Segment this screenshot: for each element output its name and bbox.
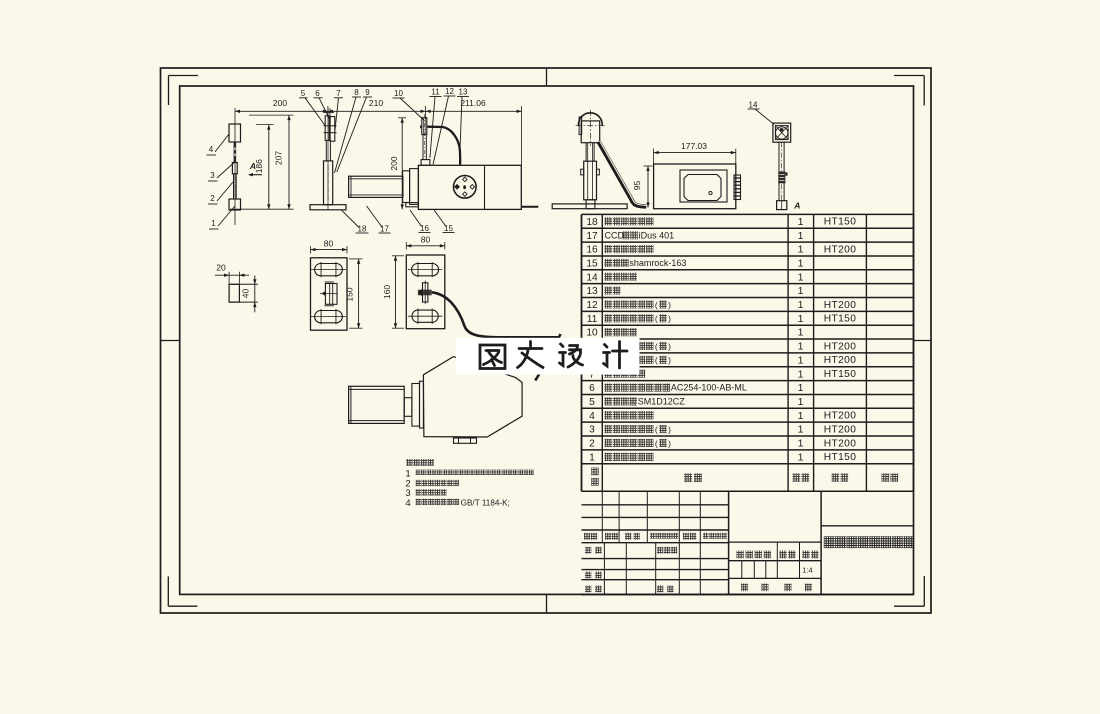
svg-text:8: 8 [354,88,359,97]
view2 column [324,161,333,205]
BOM rows content [586,216,856,463]
svg-text:12: 12 [586,300,598,311]
leader 2 [208,182,233,204]
dimension 150 left plate [344,259,362,328]
view2 base plate item18 [310,205,346,210]
svg-text:16: 16 [586,245,598,256]
svg-text:HT200: HT200 [824,355,857,366]
leader 15 to spectrograph [434,210,454,233]
svg-text:11: 11 [431,88,440,97]
leader 1 [209,206,235,229]
svg-text:HT150: HT150 [824,217,857,228]
svg-text:(: ( [655,300,658,310]
dimension 210 horizontal [328,98,426,119]
corner bracket top-left [169,76,199,106]
svg-text:95: 95 [632,181,642,191]
left mounting plate [311,258,348,330]
dimension 200 horizontal [235,98,328,113]
svg-text:1: 1 [798,451,804,463]
sideview clamp ears [581,169,600,175]
svg-text:HT150: HT150 [824,452,857,463]
view2 upper rod [326,140,330,161]
left plate bottom slot [311,309,346,324]
centering mark right [914,340,931,342]
leader 12 [433,87,456,165]
svg-text:3: 3 [589,425,595,436]
sideview foot block [586,200,595,209]
svg-text:20: 20 [216,263,226,273]
svg-text:): ) [668,438,671,448]
svg-text:13: 13 [459,88,468,97]
svg-text:1: 1 [798,244,804,256]
svg-text:): ) [668,300,671,310]
sideview head box [581,121,600,143]
box foot [406,203,419,207]
svg-text:1: 1 [798,396,804,408]
view1 lamp base block item1 [229,199,241,210]
dimension 80 left plate [311,239,348,254]
box side connector [734,175,741,200]
view2 lens clamp plates [324,108,337,141]
target stick base [777,201,787,210]
svg-text:10: 10 [394,89,403,98]
fiber cable on box [428,127,461,165]
svg-text:1: 1 [798,382,804,394]
svg-text:17: 17 [380,225,389,234]
svg-text:2: 2 [210,194,215,203]
leader 18 to base [342,210,369,233]
svg-text:(: ( [655,424,658,434]
svg-text:shamrock-163: shamrock-163 [629,258,686,268]
title block grid [582,491,914,594]
leader 16 to box foot [410,210,431,233]
centering mark top [546,68,548,86]
spectrograph box side view [654,164,736,209]
leader 3 [208,163,234,181]
BOM header row [591,468,898,486]
svg-text:HT200: HT200 [824,300,857,311]
svg-text:186: 186 [254,159,264,173]
camera lens tube [349,176,403,197]
sideview head left ear [579,117,582,135]
svg-text:(: ( [655,438,658,448]
view1 lamp assembly centerline [234,108,236,225]
leader 11 [430,88,442,159]
svg-text:18: 18 [586,217,598,228]
target stick clamp [778,172,787,184]
right plate top slot [408,262,443,277]
title block small labels [584,533,819,593]
svg-text:80: 80 [421,235,431,245]
svg-text:HT200: HT200 [824,438,857,449]
svg-text:(: ( [655,341,658,351]
svg-text:9: 9 [365,88,370,97]
dimension 211.06 horizontal [426,98,522,165]
centering mark bottom [546,595,548,614]
svg-text:1: 1 [798,438,804,450]
svg-text:1: 1 [211,219,216,228]
camera sketch feet [454,438,477,443]
centering mark left [161,340,180,342]
svg-text:7: 7 [336,89,341,98]
svg-text:177.03: 177.03 [681,141,707,151]
svg-text:): ) [668,424,671,434]
svg-text:2: 2 [589,439,595,450]
view1 lamp window block item4 [229,124,241,142]
sheet outer border [161,68,932,613]
svg-text:14: 14 [749,101,758,110]
watermark characters tu wen she ji [480,342,627,369]
svg-text:A: A [793,201,800,211]
left plate center clamp [320,282,338,306]
target panel squares [773,123,791,142]
svg-text:6: 6 [315,89,320,98]
svg-text:HT200: HT200 [824,341,857,352]
svg-text:1: 1 [798,285,804,297]
dimension 186 vertical [230,125,294,210]
view1 lamp lower rod item2 [234,174,237,199]
svg-text:4: 4 [589,411,595,422]
svg-text:1: 1 [798,230,804,242]
view1 lamp middle sleeve [232,163,237,174]
right mounting plate [406,255,445,329]
drawing title xiangdui biaoding shiyan buju [824,536,914,548]
view2 centerline [327,108,329,210]
svg-text:207: 207 [274,151,284,165]
dimension 177.03 [654,141,736,164]
svg-text:210: 210 [369,98,383,108]
dimension 200 view3 [389,118,406,210]
camera sketch cable arc [535,334,560,381]
svg-text:): ) [668,355,671,365]
sideview column [584,143,597,200]
sideview head dome [578,113,602,126]
svg-text:40: 40 [241,289,251,299]
svg-text:4: 4 [405,498,410,509]
svg-text:5: 5 [589,397,595,408]
camera sketch lens tube [349,386,405,423]
svg-text:HT200: HT200 [824,411,857,422]
svg-text:iDus 401: iDus 401 [639,230,675,240]
BOM parts list table [582,214,914,491]
camera sketch tube step [404,398,412,417]
svg-text:(: ( [655,314,658,324]
corner bracket bottom-right [894,576,924,606]
leader 8 [335,88,362,173]
svg-text:(: ( [655,355,658,365]
technical notes text [405,459,534,509]
svg-text:4: 4 [209,145,214,154]
svg-text:10: 10 [586,328,598,339]
corner bracket top-right [894,76,924,106]
svg-text:1: 1 [798,313,804,325]
svg-text:6: 6 [589,383,595,394]
leader 4 [207,134,230,155]
svg-text:HT150: HT150 [824,314,857,325]
left plate top slot [311,262,346,277]
fiber rod on box [420,114,430,165]
leader 10 [393,89,424,120]
svg-text:1: 1 [798,368,804,380]
svg-text:5: 5 [301,89,306,98]
target panel leader 14 [748,101,775,125]
svg-text:160: 160 [382,285,392,299]
view arrow A [248,161,262,176]
right plate fiber plug [418,281,432,305]
svg-text:): ) [668,341,671,351]
sheet inner border [180,86,914,594]
svg-text:200: 200 [273,98,287,108]
dimension 80 right plate [406,235,445,250]
svg-text:16: 16 [420,224,429,233]
sideview fiber cable thick [599,142,647,207]
spectrograph box front [418,165,521,209]
svg-text:HT200: HT200 [824,424,857,435]
camera sketch body polygon [423,357,522,437]
leader 7 [334,89,343,130]
svg-text:150: 150 [344,287,354,301]
dimension 207 vertical [249,115,294,209]
fiber cable from plug [432,292,560,337]
svg-text:1: 1 [798,327,804,339]
svg-text:): ) [668,314,671,324]
svg-text:CCD: CCD [605,230,625,240]
view1 lamp thin rod item3 [234,142,237,163]
svg-text:200: 200 [389,156,399,170]
leader 5 [299,89,326,126]
sideview base plate [552,204,627,209]
svg-text:13: 13 [586,286,598,297]
target stick [779,142,784,201]
svg-text:15: 15 [586,258,598,269]
svg-text:1:4: 1:4 [802,566,812,575]
svg-text:1: 1 [798,271,804,283]
svg-text:15: 15 [444,224,453,233]
svg-text:14: 14 [586,272,598,283]
svg-text:1: 1 [798,341,804,353]
svg-text:GB/T 1184-K;: GB/T 1184-K; [461,499,510,508]
corner bracket bottom-left [168,576,197,606]
svg-text:AC254-100-AB-ML: AC254-100-AB-ML [671,383,747,393]
svg-text:SM1D12CZ: SM1D12CZ [638,397,686,407]
box aperture circle [454,176,477,199]
svg-text:1: 1 [798,257,804,269]
svg-text:1: 1 [798,299,804,311]
leader 9 [337,88,372,172]
svg-text:17: 17 [586,231,598,242]
right plate bottom slot [408,309,443,324]
svg-text:11: 11 [587,314,598,325]
svg-text:12: 12 [445,87,454,96]
dimension 95 [632,166,653,208]
ground line right of box [521,206,538,208]
detail part 20x40 outline [229,272,258,302]
dimension 40 detail [241,276,257,313]
camera sketch flange plates [412,381,424,428]
watermark white box [456,338,640,375]
svg-text:1: 1 [589,452,595,463]
leader 17 to camera tube [367,206,391,234]
svg-text:1: 1 [798,216,804,228]
svg-text:1: 1 [798,410,804,422]
svg-text:80: 80 [324,239,334,249]
dimension 20 detail [215,263,249,277]
svg-text:1: 1 [798,424,804,436]
sideview head centerlines [576,110,606,146]
svg-text:18: 18 [358,225,367,234]
svg-text:1: 1 [798,354,804,366]
leader 13 [457,88,469,164]
leader 6 [314,89,331,120]
box left flange plates [403,169,419,205]
sideview upper rod [586,143,594,162]
dimension 160 right plate [382,256,404,328]
svg-text:HT150: HT150 [824,369,857,380]
svg-text:211.06: 211.06 [460,98,486,108]
svg-text:3: 3 [210,171,215,180]
svg-text:HT200: HT200 [824,244,857,255]
